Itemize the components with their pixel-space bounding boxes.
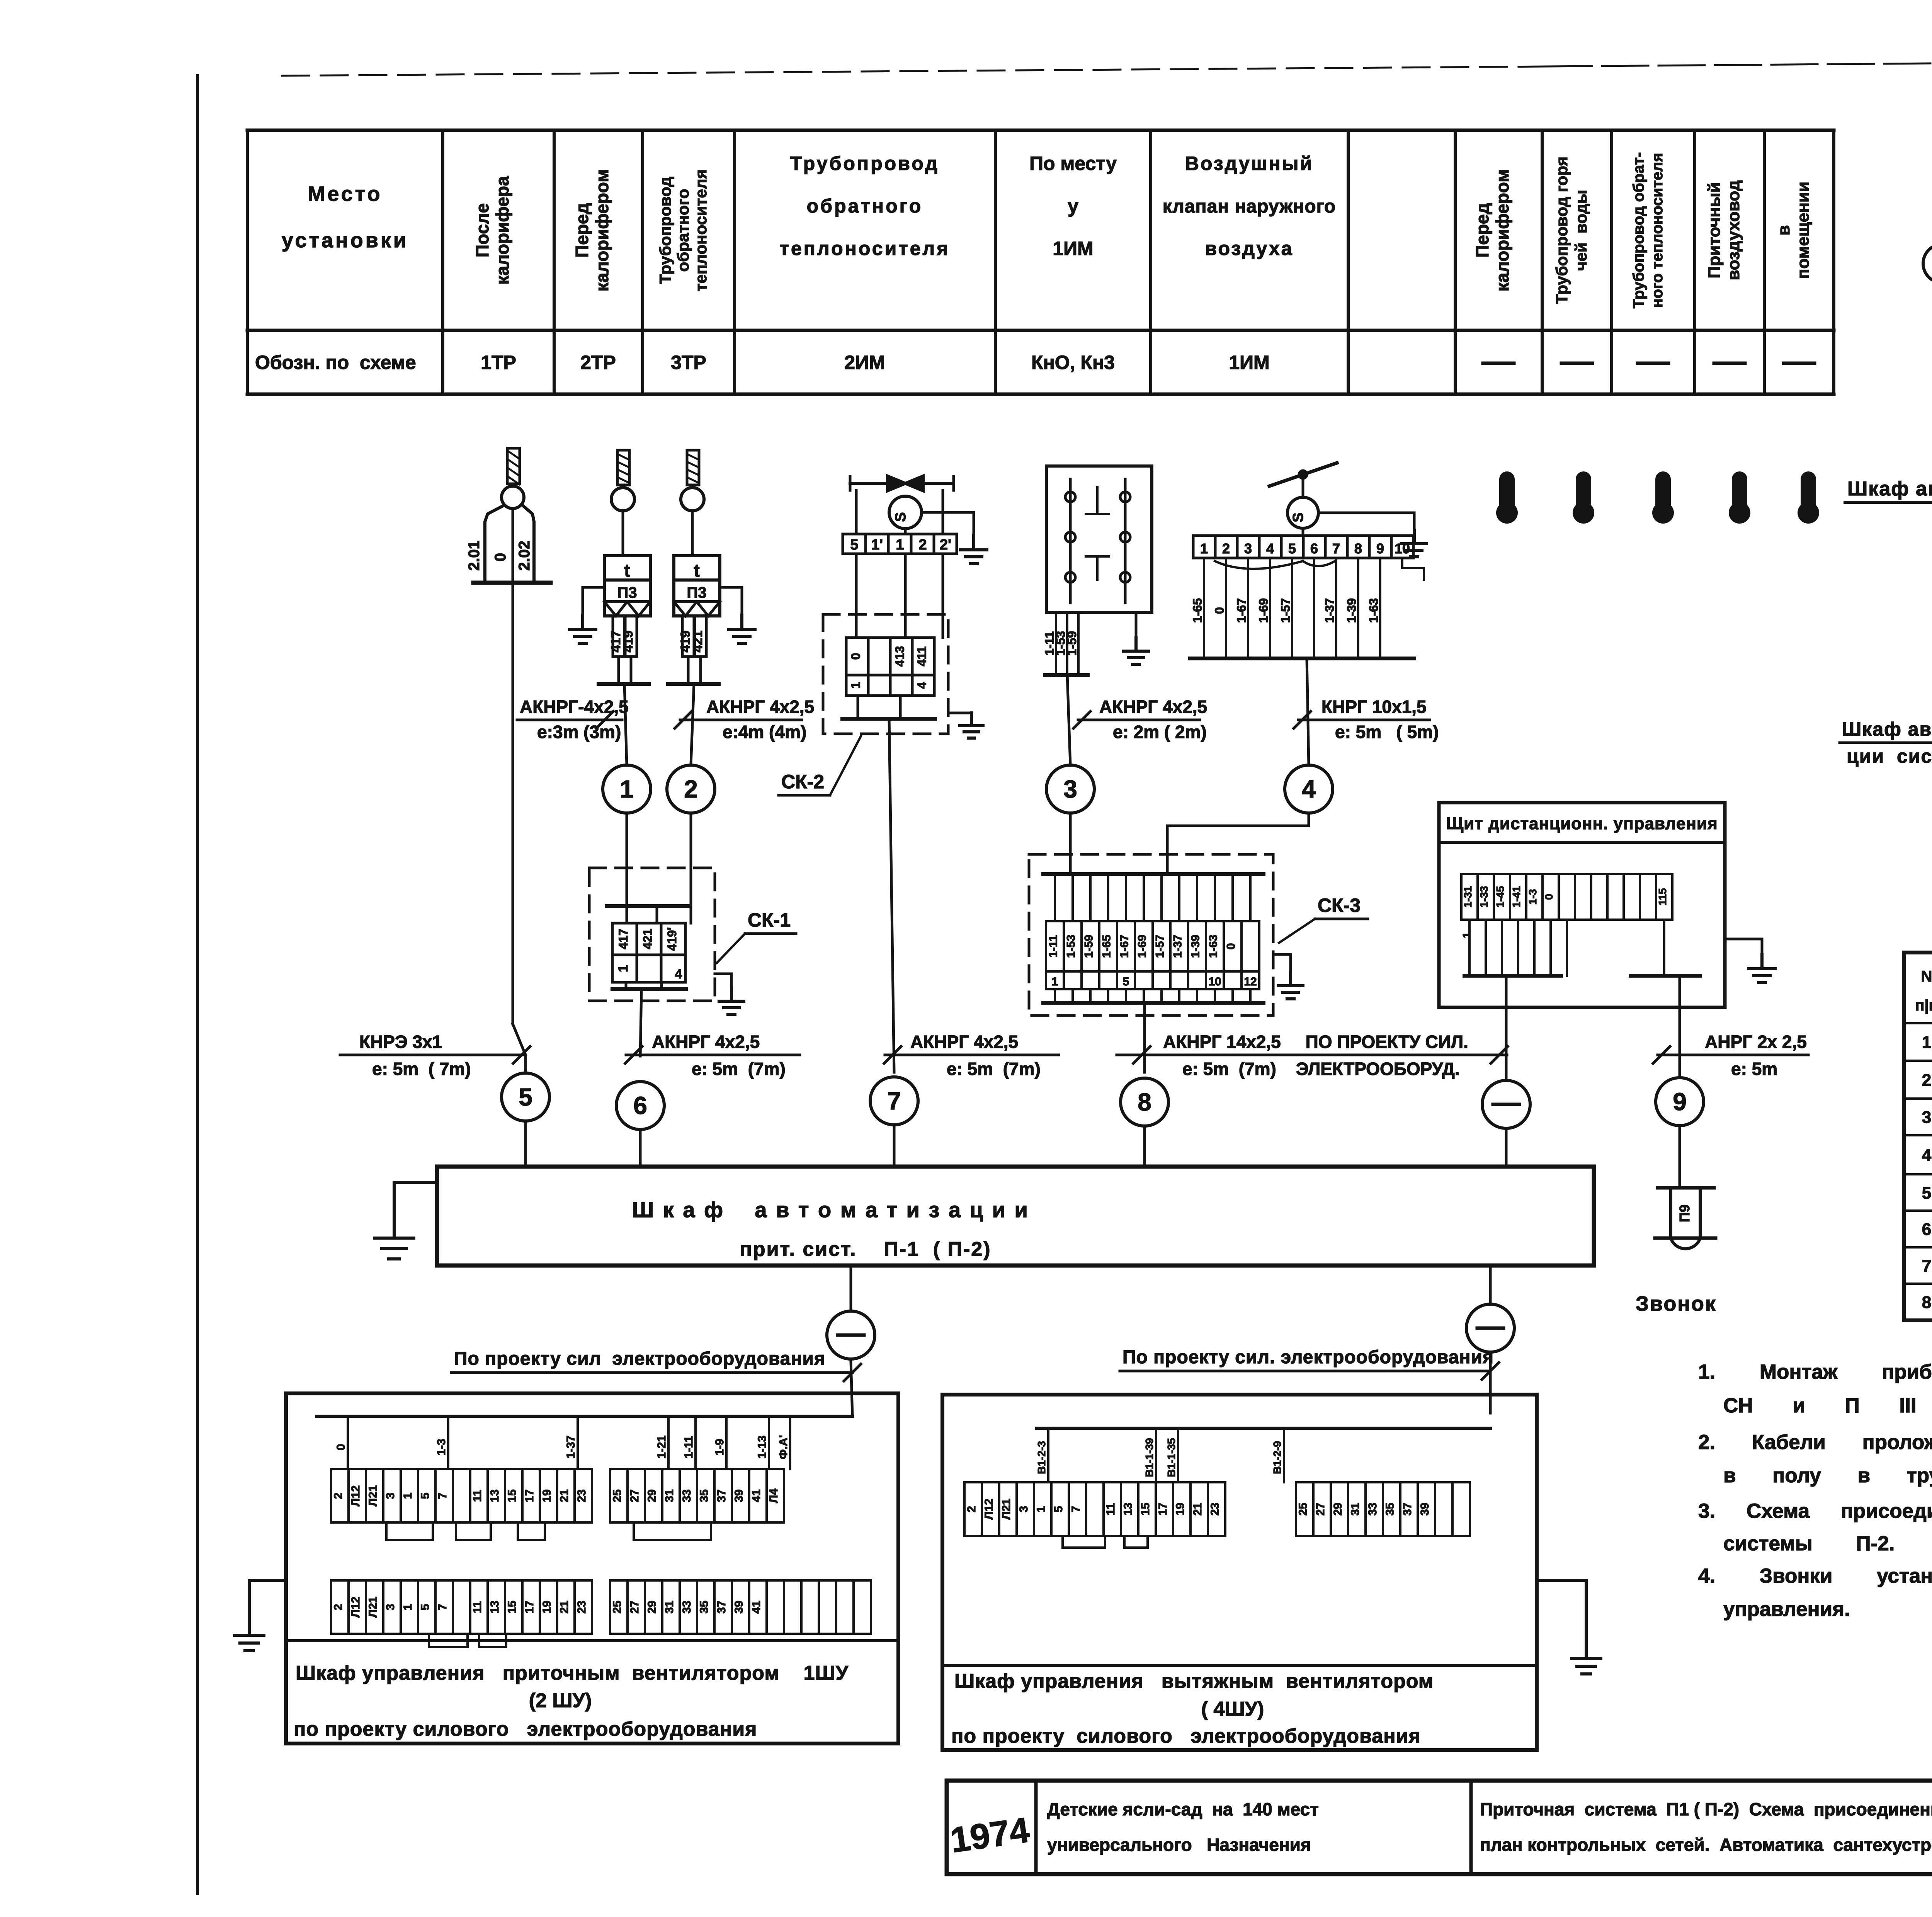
svg-text:1-65: 1-65 [1190, 598, 1204, 623]
svg-text:По проекту сил. электрооборудо: По проекту сил. электрооборудования [1122, 1347, 1494, 1368]
svg-text:1: 1 [1035, 1506, 1048, 1512]
svg-text:5: 5 [419, 1604, 432, 1611]
svg-text:5: 5 [419, 1493, 432, 1499]
svg-text:11: 11 [471, 1601, 484, 1613]
svg-text:1-69: 1-69 [1136, 935, 1149, 958]
svg-text:Воздушный: Воздушный [1185, 153, 1313, 174]
svg-text:15: 15 [1139, 1503, 1152, 1516]
svg-text:39: 39 [1418, 1503, 1431, 1516]
svg-text:калорифером: калорифером [1492, 169, 1512, 292]
svg-text:23: 23 [575, 1489, 588, 1502]
svg-text:После: После [472, 203, 492, 257]
svg-text:7: 7 [1922, 1257, 1931, 1276]
svg-text:Приточная система П1 ( П-2): Приточная система П1 ( П-2) Схема присое… [1480, 1799, 1932, 1819]
svg-text:КНРЭ 3х1: КНРЭ 3х1 [359, 1032, 442, 1052]
svg-text:Л21: Л21 [367, 1485, 379, 1506]
svg-text:АКНРГ 14х2,5 ПО ПРОЕКТУ СИ: АКНРГ 14х2,5 ПО ПРОЕКТУ СИЛ. [1163, 1032, 1468, 1052]
svg-text:S: S [893, 512, 909, 522]
svg-text:3: 3 [384, 1493, 397, 1499]
svg-text:3. Схема присоединений дана дл: 3. Схема присоединений дана для системы … [1698, 1500, 1932, 1522]
svg-text:1-3: 1-3 [435, 1439, 448, 1455]
svg-text:33: 33 [1366, 1503, 1379, 1516]
svg-text:413: 413 [893, 646, 906, 667]
svg-text:7: 7 [436, 1493, 449, 1499]
svg-text:теплоносителя: теплоносителя [779, 238, 950, 259]
svg-text:1-53: 1-53 [1065, 935, 1078, 958]
svg-text:1-45: 1-45 [1494, 886, 1506, 908]
svg-text:115: 115 [1656, 888, 1668, 905]
svg-text:Звонок: Звонок [1636, 1292, 1717, 1315]
svg-text:АКНРГ 4х2,5: АКНРГ 4х2,5 [1099, 697, 1207, 717]
svg-text:Место: Место [308, 182, 382, 206]
svg-text:у: у [1068, 195, 1078, 217]
svg-text:0: 0 [1213, 607, 1226, 614]
svg-text:КнО, Кн3: КнО, Кн3 [1031, 352, 1115, 373]
svg-text:29: 29 [1332, 1503, 1344, 1516]
svg-text:17: 17 [523, 1489, 536, 1502]
svg-text:27: 27 [628, 1601, 641, 1613]
svg-text:41: 41 [750, 1601, 763, 1613]
svg-text:ции сист П-1: ции сист П-1 [1847, 745, 1932, 767]
svg-text:0: 0 [849, 653, 862, 660]
svg-text:33: 33 [680, 1489, 693, 1502]
svg-text:2: 2 [965, 1506, 978, 1512]
svg-text:КНРГ 10х1,5: КНРГ 10х1,5 [1321, 697, 1427, 717]
svg-text:по проекту силового электро: по проекту силового электрооборудования [951, 1725, 1421, 1747]
svg-text:17: 17 [1156, 1503, 1169, 1516]
svg-text:установки: установки [282, 229, 408, 252]
svg-text:11: 11 [1104, 1503, 1117, 1516]
svg-text:системы П-2. В скобках дана дл: системы П-2. В скобках дана длина кабеля… [1723, 1532, 1932, 1555]
svg-text:1: 1 [620, 775, 634, 803]
svg-text:1ИМ: 1ИМ [1229, 352, 1269, 373]
svg-text:421: 421 [641, 929, 655, 949]
svg-text:Л4: Л4 [767, 1488, 780, 1503]
svg-text:Ф.А': Ф.А' [777, 1435, 790, 1459]
svg-text:1: 1 [401, 1604, 414, 1611]
svg-text:1-31: 1-31 [1462, 886, 1474, 908]
svg-text:1-11: 1-11 [1047, 935, 1060, 958]
svg-text:1': 1' [871, 537, 883, 553]
svg-text:3: 3 [384, 1604, 397, 1611]
svg-text:1-11: 1-11 [682, 1436, 695, 1458]
svg-text:1: 1 [401, 1493, 414, 1499]
svg-text:клапан наружного: клапан наружного [1163, 196, 1336, 217]
svg-text:Детские ясли-сад на 140 мест: Детские ясли-сад на 140 мест [1047, 1799, 1319, 1819]
svg-text:прит. сист. П-1 ( П-2): прит. сист. П-1 ( П-2) [740, 1238, 991, 1260]
svg-text:В1-1-35: В1-1-35 [1165, 1438, 1177, 1477]
svg-text:е: 5m: е: 5m [1731, 1059, 1777, 1079]
svg-text:Ш к а ф а в т о м а т и з а: Ш к а ф а в т о м а т и з а ц и и [632, 1197, 1029, 1222]
svg-text:35: 35 [698, 1601, 711, 1613]
svg-text:Трубопровод: Трубопровод [656, 177, 674, 284]
svg-text:универсального Назначения: универсального Назначения [1047, 1835, 1311, 1855]
svg-text:4: 4 [1302, 775, 1316, 803]
svg-text:2': 2' [940, 537, 951, 553]
svg-text:е:4m (4m): е:4m (4m) [723, 722, 806, 742]
svg-text:417: 417 [616, 929, 630, 949]
svg-text:Шкаф управления приточным в: Шкаф управления приточным вентилятором 1… [296, 1662, 849, 1684]
svg-text:1-33: 1-33 [1478, 886, 1490, 908]
svg-text:31: 31 [1349, 1503, 1362, 1516]
svg-text:АНРГ 2х 2,5: АНРГ 2х 2,5 [1705, 1032, 1807, 1052]
svg-text:2.01: 2.01 [466, 541, 483, 571]
svg-text:419': 419' [665, 927, 679, 951]
svg-text:1: 1 [849, 682, 862, 689]
svg-text:СК-2: СК-2 [781, 771, 824, 793]
svg-text:П3: П3 [617, 584, 637, 601]
svg-text:5: 5 [519, 1083, 532, 1111]
svg-text:15: 15 [506, 1489, 519, 1502]
svg-text:В1-1-39: В1-1-39 [1143, 1438, 1155, 1477]
svg-text:1-67: 1-67 [1235, 598, 1248, 623]
svg-text:9: 9 [1673, 1088, 1687, 1116]
svg-text:СН и П III - И7-67 Госстроя СС: СН и П III - И7-67 Госстроя СССР. [1723, 1394, 1932, 1417]
svg-text:Обозн. по схеме: Обозн. по схеме [255, 352, 416, 373]
svg-text:5: 5 [1288, 541, 1296, 556]
svg-text:Трубопровод обрат-: Трубопровод обрат- [1630, 152, 1647, 308]
svg-text:е: 5m (7m): е: 5m (7m) [692, 1059, 786, 1079]
svg-text:1-67: 1-67 [1118, 935, 1131, 958]
svg-text:13: 13 [488, 1601, 501, 1613]
svg-text:411: 411 [915, 646, 929, 667]
svg-text:419: 419 [621, 631, 636, 653]
svg-text:1ИМ: 1ИМ [1053, 238, 1093, 259]
svg-text:7: 7 [1070, 1506, 1082, 1512]
svg-text:2: 2 [1922, 1071, 1931, 1090]
svg-text:35: 35 [1384, 1503, 1396, 1516]
svg-text:S: S [1290, 512, 1306, 522]
svg-text:Перед: Перед [572, 203, 592, 258]
svg-text:39: 39 [733, 1601, 745, 1613]
svg-text:25: 25 [611, 1601, 624, 1613]
svg-text:Шкаф автоматизации: Шкаф автоматизации [1847, 478, 1932, 500]
svg-text:9: 9 [1376, 541, 1384, 556]
svg-text:1: 1 [616, 965, 631, 972]
svg-text:7: 7 [887, 1087, 901, 1115]
svg-text:7: 7 [436, 1604, 449, 1611]
svg-text:Щит дистанционн. управления: Щит дистанционн. управления [1446, 814, 1718, 833]
svg-text:2: 2 [918, 537, 927, 553]
svg-text:По месту: По месту [1029, 153, 1117, 174]
svg-text:калорифера: калорифера [492, 176, 512, 284]
svg-text:23: 23 [575, 1601, 588, 1613]
svg-text:23: 23 [1209, 1503, 1221, 1516]
svg-text:в полу в трубах.: в полу в трубах. [1723, 1464, 1932, 1487]
svg-text:е: 5m ( 7m): е: 5m ( 7m) [372, 1059, 471, 1079]
svg-text:6: 6 [633, 1092, 647, 1119]
svg-text:t: t [694, 560, 699, 580]
svg-text:37: 37 [715, 1489, 728, 1502]
svg-text:1-37: 1-37 [565, 1436, 577, 1459]
svg-text:Л21: Л21 [367, 1597, 379, 1618]
svg-text:П3: П3 [687, 584, 707, 601]
svg-text:5: 5 [1922, 1184, 1931, 1203]
svg-text:39: 39 [733, 1489, 745, 1502]
svg-text:Л12: Л12 [983, 1499, 995, 1519]
svg-text:По проекту сил электрооборудо: По проекту сил электрооборудования [454, 1349, 825, 1369]
svg-text:41: 41 [750, 1489, 763, 1502]
svg-text:37: 37 [715, 1601, 728, 1613]
svg-text:2ИМ: 2ИМ [844, 352, 885, 373]
svg-text:СК-3: СК-3 [1318, 895, 1361, 916]
svg-text:обратного: обратного [807, 195, 923, 217]
svg-text:е: 5m ( 5m): е: 5m ( 5m) [1335, 722, 1439, 742]
svg-text:1: 1 [1052, 975, 1058, 988]
svg-text:4: 4 [1266, 541, 1274, 556]
svg-text:1-37: 1-37 [1323, 598, 1337, 623]
svg-text:АКНРГ 4х2,5: АКНРГ 4х2,5 [910, 1032, 1018, 1052]
svg-text:1-59: 1-59 [1083, 935, 1095, 958]
svg-text:8: 8 [1138, 1088, 1151, 1116]
svg-text:3: 3 [1017, 1506, 1030, 1512]
svg-text:15: 15 [506, 1601, 519, 1613]
svg-text:7: 7 [1332, 541, 1340, 556]
svg-text:8: 8 [1922, 1293, 1931, 1312]
svg-text:8: 8 [1354, 541, 1362, 556]
svg-text:37: 37 [1401, 1503, 1414, 1516]
svg-text:13: 13 [488, 1489, 501, 1502]
svg-text:1-39: 1-39 [1189, 935, 1202, 958]
svg-text:1. Монтаж приборов и средств а: 1. Монтаж приборов и средств автоматизац… [1698, 1361, 1932, 1383]
svg-text:1-21: 1-21 [655, 1436, 668, 1459]
svg-text:АКНРГ 4х2,5: АКНРГ 4х2,5 [652, 1032, 760, 1052]
svg-text:0: 0 [335, 1444, 347, 1451]
svg-text:N: N [1921, 968, 1932, 985]
svg-text:1-9: 1-9 [713, 1439, 726, 1455]
svg-text:25: 25 [611, 1489, 624, 1502]
svg-text:помещении: помещении [1794, 182, 1813, 279]
svg-text:4: 4 [675, 967, 682, 981]
svg-text:3: 3 [1063, 775, 1077, 803]
svg-text:теплоносителя: теплоносителя [692, 169, 710, 291]
svg-text:1-3: 1-3 [1527, 889, 1539, 905]
svg-text:воздуховод: воздуховод [1724, 180, 1743, 280]
svg-text:Л12: Л12 [349, 1485, 362, 1506]
svg-text:6: 6 [1310, 541, 1318, 556]
svg-text:1: 1 [896, 537, 904, 553]
svg-text:1ТР: 1ТР [481, 352, 516, 373]
svg-text:( 4ШУ): ( 4ШУ) [1201, 1698, 1264, 1720]
svg-text:план контрольных сетей. Авто: план контрольных сетей. Автоматика санте… [1480, 1835, 1932, 1855]
svg-text:1: 1 [1922, 1033, 1931, 1052]
svg-text:(2 ШУ): (2 ШУ) [529, 1689, 592, 1712]
svg-text:1-57: 1-57 [1154, 935, 1167, 958]
svg-text:1: 1 [1200, 541, 1208, 556]
svg-text:е: 2m ( 2m): е: 2m ( 2m) [1113, 722, 1207, 742]
svg-text:2: 2 [332, 1493, 345, 1499]
svg-text:27: 27 [628, 1489, 641, 1502]
svg-text:чей воды: чей воды [1572, 190, 1590, 271]
svg-text:0: 0 [492, 553, 509, 561]
svg-text:в: в [1774, 225, 1793, 235]
svg-text:4: 4 [1922, 1146, 1932, 1165]
svg-text:1-65: 1-65 [1100, 935, 1113, 958]
svg-text:5: 5 [1052, 1506, 1065, 1512]
svg-text:1-37: 1-37 [1172, 935, 1184, 958]
svg-text:21: 21 [558, 1601, 571, 1613]
svg-text:2.02: 2.02 [516, 541, 533, 571]
svg-text:калорифером: калорифером [592, 169, 612, 292]
svg-text:Приточный: Приточный [1705, 182, 1724, 278]
svg-text:t: t [624, 560, 630, 580]
svg-text:31: 31 [663, 1489, 676, 1502]
svg-text:Трубопровод горя: Трубопровод горя [1553, 156, 1571, 304]
svg-text:10: 10 [1395, 541, 1410, 556]
svg-text:Шкаф автоматиза: Шкаф автоматиза [1842, 718, 1932, 740]
svg-text:1-41: 1-41 [1510, 886, 1522, 908]
svg-text:СК-1: СК-1 [748, 909, 791, 931]
svg-text:е: 5m (7m) ЭЛЕКТРООБОРУД.: е: 5m (7m) ЭЛЕКТРООБОРУД. [1182, 1059, 1460, 1079]
svg-text:Трубопровод: Трубопровод [790, 153, 939, 174]
svg-text:2: 2 [684, 775, 698, 803]
svg-text:5: 5 [1123, 975, 1129, 988]
svg-text:35: 35 [698, 1489, 711, 1502]
svg-text:АКНРГ 4х2,5: АКНРГ 4х2,5 [706, 697, 814, 717]
svg-text:1-63: 1-63 [1207, 935, 1220, 958]
svg-text:управления.: управления. [1723, 1598, 1850, 1621]
svg-text:3: 3 [1922, 1108, 1931, 1127]
svg-text:0: 0 [1225, 943, 1238, 950]
svg-text:29: 29 [646, 1489, 658, 1502]
svg-text:17: 17 [523, 1601, 536, 1613]
svg-text:19: 19 [541, 1601, 553, 1613]
svg-text:21: 21 [558, 1489, 571, 1502]
svg-text:2ТР: 2ТР [580, 352, 616, 373]
svg-text:2: 2 [332, 1604, 345, 1611]
svg-text:по проекту силового электроо: по проекту силового электрооборудования [294, 1718, 757, 1740]
svg-text:Л12: Л12 [349, 1597, 362, 1618]
svg-text:33: 33 [680, 1601, 693, 1613]
svg-text:1-69: 1-69 [1257, 598, 1270, 623]
svg-text:Л21: Л21 [1000, 1499, 1013, 1519]
svg-text:1-39: 1-39 [1345, 598, 1359, 623]
svg-text:обратного: обратного [674, 189, 692, 272]
svg-text:4: 4 [915, 682, 929, 689]
svg-text:11: 11 [471, 1490, 484, 1502]
svg-text:1-57: 1-57 [1279, 598, 1293, 623]
svg-text:П9: П9 [1677, 1204, 1692, 1222]
svg-text:0: 0 [1543, 894, 1555, 900]
svg-text:2: 2 [1222, 541, 1230, 556]
svg-text:1-13: 1-13 [756, 1436, 769, 1459]
svg-text:29: 29 [646, 1601, 658, 1613]
svg-text:4. Звонки установить по месту: 4. Звонки установить по месту рядом с щи… [1698, 1565, 1932, 1587]
svg-text:13: 13 [1122, 1503, 1134, 1516]
svg-text:ного теплоносителя: ного теплоносителя [1649, 153, 1666, 308]
svg-text:Шкаф управления вытяжным ве: Шкаф управления вытяжным вентилятором [954, 1670, 1434, 1692]
svg-text:19: 19 [541, 1489, 553, 1502]
svg-text:воздуха: воздуха [1205, 238, 1293, 259]
svg-text:п|п: п|п [1915, 997, 1932, 1014]
svg-text:25: 25 [1297, 1503, 1310, 1516]
svg-text:е: 5m (7m): е: 5m (7m) [947, 1059, 1041, 1079]
svg-text:6: 6 [1922, 1220, 1931, 1239]
svg-text:12: 12 [1244, 975, 1257, 988]
svg-text:5: 5 [850, 537, 858, 553]
svg-text:1-59: 1-59 [1065, 631, 1079, 656]
svg-text:1-63: 1-63 [1367, 598, 1381, 623]
svg-text:21: 21 [1191, 1503, 1204, 1516]
svg-text:е:3m (3m): е:3m (3m) [537, 722, 621, 742]
svg-text:В1-2-9: В1-2-9 [1271, 1441, 1283, 1474]
svg-text:10: 10 [1208, 975, 1221, 988]
svg-text:31: 31 [663, 1601, 676, 1613]
svg-text:1: 1 [1461, 932, 1473, 938]
svg-text:3: 3 [1244, 541, 1252, 556]
svg-text:27: 27 [1314, 1503, 1327, 1516]
svg-text:2. Кабели проложить по стенам: 2. Кабели проложить по стенам открыто с … [1698, 1431, 1932, 1454]
svg-text:421: 421 [690, 631, 705, 653]
svg-text:Перед: Перед [1472, 203, 1492, 258]
svg-text:В1-2-3: В1-2-3 [1036, 1441, 1048, 1474]
svg-text:3ТР: 3ТР [671, 352, 706, 373]
svg-text:19: 19 [1174, 1503, 1187, 1516]
